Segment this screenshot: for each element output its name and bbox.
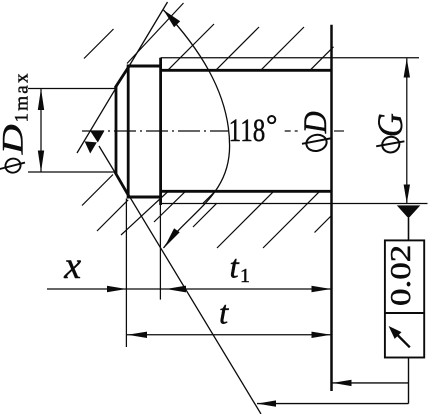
svg-text:D: D: [297, 111, 333, 134]
datum solid triangle on extension line: [397, 205, 421, 218]
phiG dimension line with arrows: [406, 58, 408, 203]
thread end vertical: [159, 58, 162, 205]
apex solid triangles: [90, 131, 105, 143]
hatching above hole: [84, 3, 334, 70]
centerline (dash-dot): [82, 130, 344, 132]
svg-text:x: x: [63, 245, 81, 287]
0.02 label (rotated): [385, 245, 416, 306]
svg-text:D: D: [0, 124, 29, 155]
tolerance frame: [385, 240, 424, 357]
cone slant bottom: [115, 172, 130, 197]
svg-text:t: t: [219, 296, 229, 332]
phiD1max dimension line with arrows: [40, 89, 42, 173]
frame leader down and left arrows: [408, 358, 410, 404]
drilled hole bottom (left portion): [127, 196, 162, 199]
phiG label (rotated): [371, 113, 411, 154]
thread major thin line top / phiG extension: [161, 57, 419, 59]
svg-text:118: 118: [229, 113, 266, 149]
arc bottom arrowhead: [164, 228, 180, 248]
drill point cone: face flat: [115, 87, 118, 174]
x / t1 dimension line: [47, 288, 332, 290]
hole bottom line (threaded portion, minor dia): [161, 190, 332, 193]
phiD label (rotated): [297, 111, 333, 153]
cylinder end vertical: [127, 65, 130, 198]
phiD1max dimension extension lines: [28, 88, 116, 90]
drilled hole top (left portion): [127, 65, 162, 68]
svg-text:t: t: [230, 250, 240, 286]
svg-text:0.02: 0.02: [385, 245, 416, 306]
t dimension line: [127, 334, 332, 336]
runout symbol in lower cell: [397, 335, 410, 348]
svg-text:G: G: [371, 113, 411, 137]
right face line: [330, 25, 333, 391]
lower flank construction line (118 deg): [99, 146, 261, 414]
arc top arrowhead: [164, 10, 181, 27]
hatching below hole: [82, 175, 332, 249]
svg-text:1max: 1max: [12, 73, 33, 123]
hole top line (threaded portion, minor dia): [161, 69, 332, 72]
leader from triangle to frame: [408, 218, 410, 240]
cone slant top: [115, 66, 130, 88]
phiD1max label (rotated): [0, 73, 33, 174]
bottom dimension extension lines: [125, 199, 127, 348]
svg-text:1: 1: [240, 265, 250, 287]
thread major thin line bottom / phiG extension: [161, 203, 428, 205]
upper flank construction line (118 deg): [77, 2, 168, 153]
angle dimension arc: [164, 10, 230, 248]
